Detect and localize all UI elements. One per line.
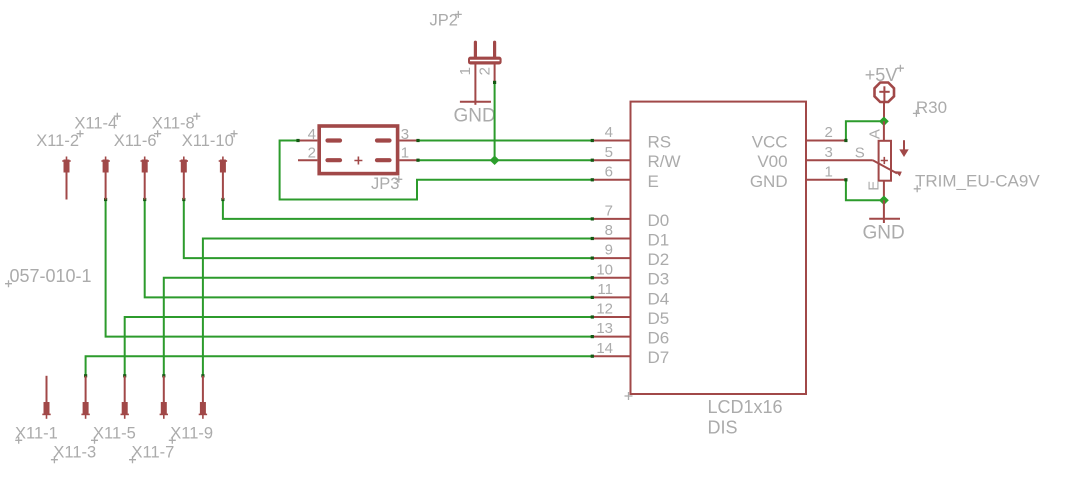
svg-text:13: 13 [596,320,613,337]
svg-text:X11-5: X11-5 [93,425,136,443]
svg-text:V00: V00 [757,152,787,171]
pin X11-2 [62,157,70,200]
junction at trimmer A [879,117,889,127]
svg-text:1: 1 [457,67,474,75]
svg-text:10: 10 [596,261,613,278]
svg-text:D6: D6 [648,329,670,348]
label X11-5 [91,425,136,444]
svg-text:A: A [866,129,883,139]
trimmer R30 TRIM_EU-CA9V [855,98,1041,201]
LCD left pin stubs [592,141,630,357]
svg-text:4: 4 [605,124,613,141]
wire E net: JP3 pin4 to LCD pin6 [280,139,594,200]
svg-text:X11-2: X11-2 [36,132,79,150]
label X11-9 [169,425,213,444]
svg-text:X11-4: X11-4 [74,115,117,133]
wire VCC: LCD pin2 to trimmer A [844,121,884,142]
label X11-10 [182,130,238,150]
svg-text:D4: D4 [648,289,670,308]
svg-text:2: 2 [308,145,316,162]
label X11-2 [36,130,83,150]
svg-text:14: 14 [596,340,613,357]
svg-text:VCC: VCC [752,133,788,152]
svg-text:D0: D0 [648,211,670,230]
pin X11-5 [121,376,129,419]
wire RS net: JP3 pin3 to LCD pin4 [416,139,594,142]
svg-text:5: 5 [605,144,613,161]
svg-text:3: 3 [401,126,409,143]
svg-text:D2: D2 [648,250,670,269]
svg-text:E: E [865,181,882,191]
svg-text:057-010-1: 057-010-1 [10,266,92,286]
LCD left pin names [648,133,681,368]
pin X11-9 [199,376,207,419]
svg-text:X11-8: X11-8 [152,115,195,133]
ground GND at trimmer [863,200,905,243]
svg-text:E: E [648,172,659,191]
svg-text:RS: RS [648,133,672,152]
pin X11-1 [42,376,50,419]
svg-text:1: 1 [825,163,833,180]
svg-text:X11-9: X11-9 [170,425,213,443]
label X11-3 [51,444,96,464]
svg-text:JP3: JP3 [371,175,399,193]
svg-text:6: 6 [605,163,613,180]
wire D3 net: X11-7 to LCD pin10 [162,276,594,377]
LCD left pin numbers [596,124,613,357]
label X11-7 [129,444,174,464]
ground GND at JP2 [454,84,496,127]
LCD right pin names [750,133,788,191]
svg-text:GND: GND [750,172,788,191]
svg-text:TRIM_EU-CA9V: TRIM_EU-CA9V [915,172,1040,191]
label X11-6 [114,130,161,150]
pin X11-3 [81,376,89,419]
connector JP3 [298,126,418,193]
label X11-8 [152,113,200,133]
wire D2 net: X11-8 to LCD pin9 [182,198,594,260]
wire D6 net: X11-4 to LCD pin13 [104,198,594,338]
wire R/W net: JP3 pin1 to LCD pin5 [416,159,594,162]
svg-text:X11-10: X11-10 [182,132,234,150]
label 057-010-1 [5,266,92,287]
label X11-4 [74,113,120,133]
svg-text:LCD1x16: LCD1x16 [708,397,783,417]
svg-text:3: 3 [825,144,833,161]
junction on R/W net [490,155,500,165]
svg-text:11: 11 [597,281,613,298]
connector JP2 [430,11,502,84]
svg-text:GND: GND [454,106,496,127]
svg-text:X11-3: X11-3 [53,444,96,462]
LCD DIS box [625,102,807,438]
wire JP2 pin2 to R/W net [493,81,496,160]
svg-text:X11-7: X11-7 [132,444,175,462]
svg-text:2: 2 [477,67,494,75]
svg-text:DIS: DIS [708,417,738,437]
svg-text:1: 1 [401,145,409,162]
wire D0 net: X11-10 to LCD pin7 [221,198,594,221]
supply +5V [865,65,904,122]
junction at trimmer E [879,196,889,206]
pin X11-6 [141,157,149,200]
LCD right pin numbers [825,124,833,180]
svg-text:4: 4 [308,126,316,143]
svg-text:+5V: +5V [865,65,898,85]
pin X11-8 [180,157,188,200]
svg-text:12: 12 [596,301,613,318]
pin X11-4 [101,157,109,200]
svg-text:7: 7 [605,203,613,220]
wire D5 net: X11-5 to LCD pin12 [123,315,594,377]
svg-text:D3: D3 [648,270,670,289]
svg-text:S: S [855,144,865,161]
svg-text:R30: R30 [916,98,947,117]
wire D4 net: X11-6 to LCD pin11 [143,198,594,299]
svg-text:D1: D1 [648,231,670,250]
svg-text:2: 2 [825,124,833,141]
svg-text:GND: GND [863,222,905,243]
svg-text:JP2: JP2 [430,12,458,30]
svg-text:D7: D7 [648,348,670,367]
pin X11-10 [219,157,227,200]
svg-text:X11-6: X11-6 [114,132,157,150]
wire GND: LCD pin1 to trimmer E [844,178,884,200]
label X11-1 [15,425,58,444]
svg-text:D5: D5 [648,309,670,328]
wire D7 net: X11-3 to LCD pin14 [84,355,594,378]
LCD right pin stubs [806,141,873,180]
svg-text:R/W: R/W [648,152,681,171]
wire D1 net: X11-9 to LCD pin8 [201,237,594,378]
svg-text:9: 9 [605,242,613,259]
svg-text:8: 8 [605,222,613,239]
pin X11-7 [160,376,168,419]
